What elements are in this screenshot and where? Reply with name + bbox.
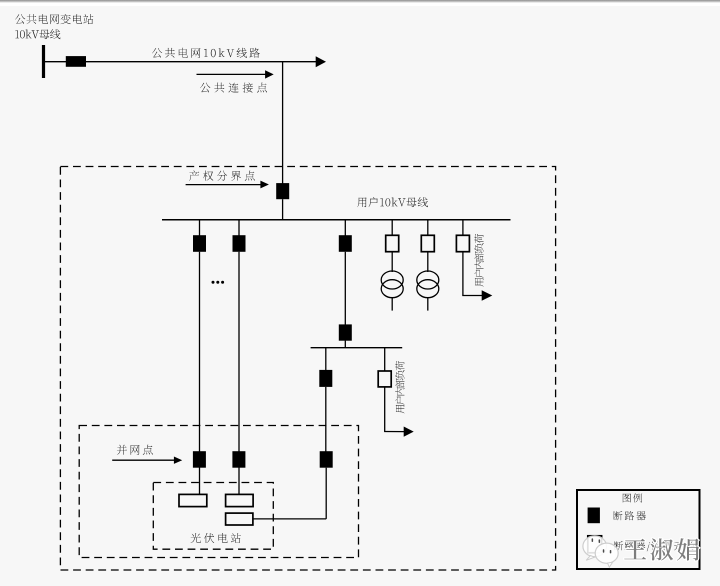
wire: public grid 10kV line bbox=[44, 61, 317, 63]
label 公共电网变电站 bbox=[15, 14, 93, 24]
legend symbol: circuit breaker (black) bbox=[588, 508, 600, 524]
breaker feeder 1 (black) bbox=[193, 235, 206, 252]
switch load feeder (white box) bbox=[456, 235, 469, 251]
label 产权分界点 bbox=[189, 171, 255, 181]
wire: drop from grid line to demarcation breaker bbox=[282, 62, 284, 184]
watermark chat bubble large bbox=[583, 536, 607, 560]
user sub-busbar bbox=[311, 347, 403, 349]
breaker QF grid-side (black) bbox=[66, 56, 86, 67]
wire: demarcation breaker to user busbar bbox=[282, 199, 284, 220]
label 公共连接点 bbox=[200, 83, 267, 93]
wire: load feeder drop bbox=[462, 220, 464, 236]
wire: inverter 3 to breaker 3 bbox=[253, 518, 326, 520]
wire: sub-branch right down bbox=[384, 387, 386, 432]
label 用户内部负荷 (right, rotated) bbox=[474, 234, 483, 287]
legend symbol: switch (white) bbox=[588, 536, 602, 553]
wire: feeder 3 to sub-busbar bbox=[344, 341, 346, 348]
wire+arrow: user internal load (right) bbox=[462, 290, 492, 300]
breaker grid-connection 3 (black) bbox=[320, 451, 333, 468]
breaker sub-branch left (black) bbox=[319, 370, 332, 387]
inverter unit 2 bbox=[226, 494, 254, 506]
PV station dashed box bbox=[153, 483, 273, 550]
arrowhead: grid line direction bbox=[316, 56, 326, 67]
label 10kV母线 bbox=[15, 29, 60, 39]
label 光伏电站 bbox=[191, 533, 241, 543]
breaker at property demarcation (black) bbox=[276, 183, 289, 199]
wire: breaker 3 down bbox=[325, 468, 327, 519]
wire: transformer B stub bbox=[427, 298, 429, 311]
breaker grid-connection 2 (black) bbox=[232, 451, 245, 468]
label 图例 bbox=[623, 493, 643, 502]
wire: sub-branch left drop bbox=[325, 348, 327, 370]
inverter unit 1 bbox=[179, 494, 207, 506]
wire: feeder 1 down to PV inverter 1 bbox=[199, 252, 201, 495]
watermark chat bubble small bbox=[595, 543, 618, 567]
transformer B (two windings) bbox=[417, 271, 439, 298]
wire: transformer A stub bbox=[391, 298, 393, 311]
switch transformer feeder B (white box) bbox=[421, 235, 434, 251]
wire: feeder 2 drop bbox=[238, 220, 240, 236]
breaker feeder 2 (black) bbox=[233, 235, 246, 252]
wire: transformer feeder A drop bbox=[391, 220, 393, 236]
annotation arrow: grid-connection point bbox=[112, 457, 182, 464]
switch transformer feeder A (white box) bbox=[386, 235, 399, 251]
substation busbar (public grid 10kV bus) bbox=[42, 45, 45, 78]
wire: sub-branch right drop bbox=[384, 348, 386, 372]
breaker grid-connection 1 (black) bbox=[193, 451, 206, 468]
outer dashed box: user property boundary bbox=[60, 167, 555, 571]
user 10kV busbar bbox=[162, 219, 511, 221]
wire: feeder B to transformer bbox=[427, 251, 429, 272]
wire: sub-branch left down to grid-connection breaker 3 bbox=[325, 387, 327, 452]
wire: feeder A to transformer bbox=[391, 251, 393, 272]
label 断路器 bbox=[613, 511, 646, 520]
wire: feeder 2 down to PV inverter 2 bbox=[238, 252, 240, 495]
wire: feeder 3 middle segment bbox=[344, 252, 346, 325]
wire: load feeder down bbox=[462, 251, 464, 296]
ellipsis dots between feeders bbox=[212, 281, 225, 284]
wire: feeder 3 drop bbox=[344, 220, 346, 236]
label 并网点 bbox=[117, 445, 153, 455]
transformer A (two windings) bbox=[381, 271, 403, 298]
wire: feeder 1 drop bbox=[199, 220, 201, 236]
label 用户10kV母线 bbox=[357, 197, 428, 207]
label 公共电网10kV线路 bbox=[152, 48, 260, 58]
breaker feeder 3 lower (black) bbox=[339, 324, 352, 340]
annotation arrow: point of common coupling bbox=[197, 70, 274, 78]
label 用户内部负荷 (middle, rotated) bbox=[395, 361, 404, 413]
legend box bbox=[577, 490, 700, 569]
wire+arrow: user internal load (middle) bbox=[384, 427, 414, 437]
breaker feeder 3 upper (black) bbox=[339, 235, 352, 252]
wire: transformer feeder B drop bbox=[427, 220, 429, 236]
switch sub-branch right (white box) bbox=[378, 371, 391, 387]
label 断路器/隔离开关 bbox=[614, 541, 695, 551]
annotation arrow: property demarcation point bbox=[186, 181, 269, 189]
watermark name 王淑娟 bbox=[624, 538, 699, 560]
inner dashed box: grid-connection area bbox=[79, 426, 358, 558]
inverter unit 3 bbox=[226, 513, 253, 525]
